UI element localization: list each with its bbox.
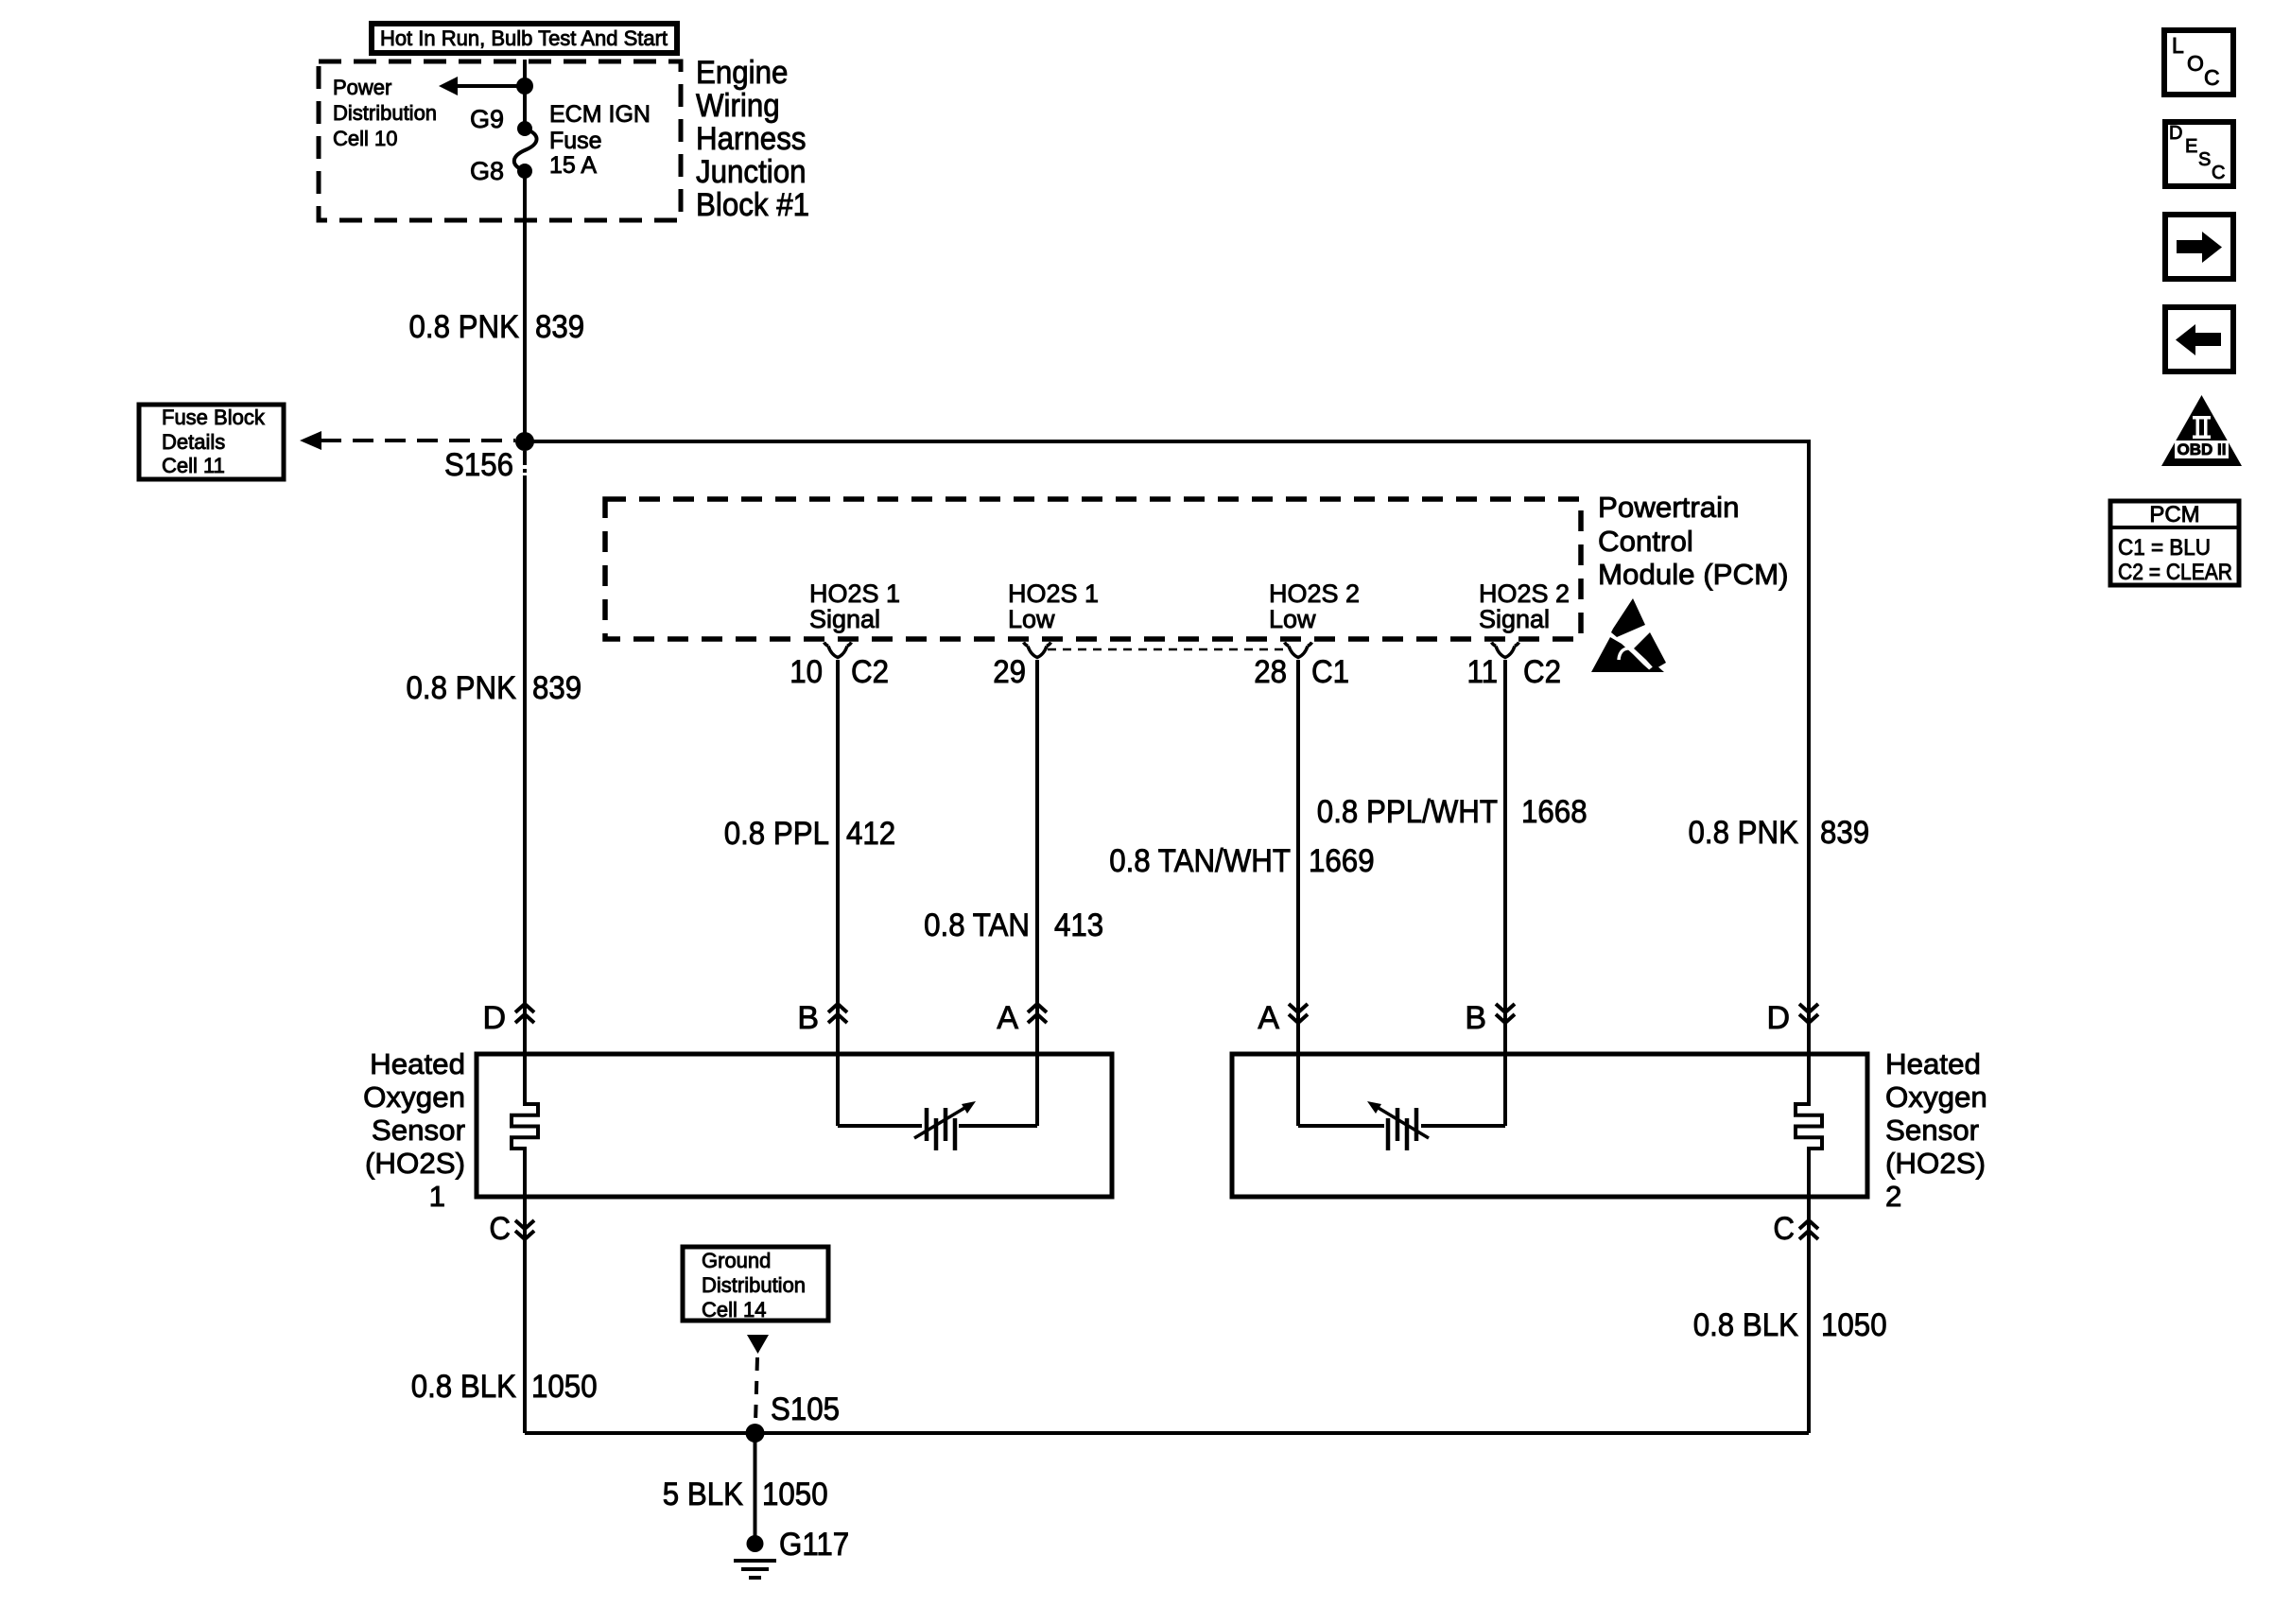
svg-text:Cell 14: Cell 14 [702,1298,766,1322]
pin G8 [470,157,532,185]
svg-text:Fuse Block: Fuse Block [162,406,266,429]
wire: trunk S156 down to HO2S1 pin D [523,451,527,465]
pin 10 C2 [789,654,889,690]
wire: junction dot to fuse [523,86,527,129]
wire: dashed reference drop to S105 [755,1357,757,1423]
label: HO2S 2 Signal [1479,579,1570,633]
connector: PCM pin 28 female terminal [1285,643,1312,658]
connector terminal D [1766,1000,1818,1036]
component box: Heated Oxygen Sensor (HO2S) 2 [1232,1054,1867,1197]
svg-text:1050: 1050 [1821,1307,1887,1343]
svg-text:C: C [2204,65,2220,90]
svg-text:412: 412 [846,816,895,852]
label: 5 BLK 1050 [663,1477,828,1512]
label: HO2S 2 Low [1269,579,1360,633]
wire: bottom ground bus [525,1431,1809,1435]
svg-text:B: B [797,1000,819,1036]
label: Engine Wiring Harness Junction Block #1 [696,55,809,223]
svg-text:Power: Power [333,76,391,99]
svg-text:Engine: Engine [696,55,788,91]
module: Powertrain Control Module dashed box [605,499,1581,639]
pin G9 [470,105,532,136]
svg-text:Heated: Heated [1885,1047,1981,1080]
wire: 0.8 PPL/WHT 1668 (pin11 to HO2S2 B) [1503,660,1507,1126]
svg-text:G9: G9 [470,105,504,133]
wire: 0.8 BLK 1050 HO2S1 C down [523,1197,527,1433]
connector: PCM pin 11 female terminal [1492,643,1519,658]
svg-text:D: D [2169,123,2182,144]
label: 0.8 BLK 1050 (left) [411,1369,598,1405]
svg-text:0.8 PPL: 0.8 PPL [724,816,829,852]
svg-text:11: 11 [1467,654,1499,690]
wire: 0.8 TAN/WHT 1669 (pin28 to HO2S2 A) [1296,660,1300,1126]
svg-text:Heated: Heated [370,1047,465,1080]
label: 0.8 PPL/WHT 1668 [1317,794,1588,830]
svg-text:5 BLK: 5 BLK [663,1477,743,1512]
svg-text:(HO2S): (HO2S) [1885,1147,1986,1180]
label: 0.8 PNK 839 (upper) [409,309,585,345]
svg-text:A: A [1258,1000,1279,1036]
wire: 5 BLK 1050 to ground [754,1433,757,1539]
node: branch junction dot [516,78,533,95]
svg-text:S: S [2198,149,2211,170]
reference box: Ground Distribution Cell 14 [683,1247,828,1322]
label: HO2S 1 Low [1008,579,1099,633]
svg-text:Cell 11: Cell 11 [162,454,225,477]
svg-text:1050: 1050 [531,1369,598,1405]
power rail label: Hot In Run, Bulb Test And Start [372,24,677,53]
svg-text:HO2S 2: HO2S 2 [1269,579,1360,608]
svg-text:D: D [482,1000,506,1036]
svg-text:ECM IGN: ECM IGN [549,101,651,128]
svg-text:HO2S 1: HO2S 1 [809,579,900,608]
wire: 0.8 TAN 413 (pin29 to HO2S1 A) [1035,660,1039,1126]
svg-text:Wiring: Wiring [696,88,780,124]
sensor cell: HO2S1 variable voltage source [838,1101,1037,1150]
svg-text:Oxygen: Oxygen [363,1080,465,1114]
svg-text:HO2S 1: HO2S 1 [1008,579,1099,608]
label: Heated Oxygen Sensor (HO2S) 1 [363,1047,465,1213]
svg-text:0.8 PPL/WHT: 0.8 PPL/WHT [1317,794,1498,830]
connector terminal A [997,1000,1047,1036]
svg-text:PCM: PCM [2149,502,2199,527]
svg-text:S156: S156 [444,447,513,483]
label: 0.8 TAN 413 [924,907,1103,943]
svg-text:0.8 TAN/WHT: 0.8 TAN/WHT [1109,843,1291,879]
label: HO2S 1 Signal [809,579,900,633]
wire: HO2S2 heater feed [1807,1052,1811,1106]
wire: dashed reference arrow to Fuse Block Details [300,431,515,450]
component box: Heated Oxygen Sensor (HO2S) 1 [477,1054,1112,1197]
wire: 0.8 BLK 1050 HO2S2 C down [1807,1197,1811,1433]
svg-text:Junction: Junction [696,154,807,190]
svg-text:839: 839 [1820,815,1869,851]
svg-text:O: O [2187,51,2204,76]
svg-text:Ground: Ground [702,1249,771,1272]
label: 0.8 PNK 839 (lower left) [407,670,582,706]
svg-text:0.8 BLK: 0.8 BLK [411,1369,517,1405]
svg-text:Low: Low [1269,605,1316,633]
icon: OBD II triangle [2161,395,2242,466]
svg-text:C1: C1 [1311,654,1349,690]
wire: supply into junction block [523,60,527,86]
svg-text:0.8 BLK: 0.8 BLK [1693,1307,1799,1343]
pin 28 C1 [1254,654,1349,690]
svg-text:C2 = CLEAR: C2 = CLEAR [2118,560,2232,585]
svg-text:C1 = BLU: C1 = BLU [2118,535,2211,561]
icon: LOC box [2164,30,2233,95]
svg-text:413: 413 [1054,907,1103,943]
svg-text:C2: C2 [1523,654,1561,690]
svg-text:Sensor: Sensor [372,1114,465,1147]
node S105: splice [746,1391,841,1443]
svg-text:C: C [2212,163,2225,183]
connector terminal B [1465,1000,1515,1036]
symbol: reference pointer triangle [747,1335,769,1354]
svg-text:Hot In Run, Bulb Test And Star: Hot In Run, Bulb Test And Start [380,26,668,50]
connector: PCM pin 10 female terminal [824,643,852,658]
svg-text:Details: Details [162,430,225,454]
svg-text:Signal: Signal [1479,605,1550,633]
svg-text:Sensor: Sensor [1885,1114,1979,1147]
svg-text:Distribution: Distribution [702,1273,806,1297]
label: 0.8 PPL 412 [724,816,896,852]
svg-text:Block #1: Block #1 [696,187,809,223]
svg-text:G8: G8 [470,157,504,185]
svg-text:0.8 TAN: 0.8 TAN [924,907,1030,943]
svg-text:Harness: Harness [696,121,807,157]
svg-text:Fuse: Fuse [549,128,602,154]
wire: 0.8 PPL 412 (pin10 to HO2S1 B) [836,660,840,1126]
svg-text:10: 10 [789,654,823,690]
svg-text:OBD II: OBD II [2178,441,2227,458]
svg-text:D: D [1766,1000,1790,1036]
label: Powertrain Control Module (PCM) [1598,491,1789,591]
pin 11 C2 [1467,654,1562,690]
symbol: ESD-sensitive device warning [1591,598,1666,672]
svg-text:1668: 1668 [1521,794,1588,830]
ground G117 [734,1527,849,1578]
wire: 0.8 PNK 839 from G8 to S156 [523,171,527,441]
svg-text:L: L [2172,33,2184,58]
svg-text:Control: Control [1598,525,1693,558]
legend box: PCM connectors [2110,501,2239,585]
svg-text:A: A [997,1000,1018,1036]
svg-text:15 A: 15 A [549,152,597,179]
svg-text:Cell 10: Cell 10 [333,127,397,150]
svg-text:839: 839 [532,670,581,706]
connector terminal C (HO2S1) [489,1211,534,1247]
label: Heated Oxygen Sensor (HO2S) 2 [1885,1047,1987,1213]
svg-text:B: B [1465,1000,1486,1036]
label: 0.8 BLK 1050 (right) [1693,1307,1887,1343]
wire: HO2S1 heater feed [523,1052,527,1106]
svg-text:G117: G117 [779,1527,849,1563]
svg-text:28: 28 [1254,654,1287,690]
svg-text:S105: S105 [771,1391,840,1427]
svg-text:1669: 1669 [1309,843,1375,879]
label: 0.8 TAN/WHT 1669 [1109,843,1374,879]
connector terminal D [482,1000,534,1036]
svg-text:1050: 1050 [762,1477,828,1512]
icon: back arrow box [2165,307,2233,371]
connector terminal B [797,1000,847,1036]
svg-text:(HO2S): (HO2S) [365,1147,465,1180]
label: 0.8 PNK 839 (right) [1689,815,1870,851]
heater element HO2S1 [512,1104,538,1149]
svg-text:Module (PCM): Module (PCM) [1598,558,1789,591]
svg-text:Oxygen: Oxygen [1885,1080,1987,1114]
junction block: Power Distribution dashed box [319,61,681,220]
sensor cell: HO2S2 variable voltage source [1298,1101,1505,1150]
connector terminal A [1258,1000,1308,1036]
heater element HO2S2 [1796,1104,1822,1149]
fuse: ECM IGN Fuse 15 A [514,101,651,179]
connector terminal C (HO2S2) [1773,1211,1818,1247]
svg-text:0.8 PNK: 0.8 PNK [1689,815,1799,851]
icon: DESC box [2165,122,2233,186]
svg-text:C: C [1773,1211,1795,1247]
node S156: splice [444,432,534,483]
svg-text:0.8 PNK: 0.8 PNK [407,670,517,706]
wire: branch arrow to Power Distribution [439,77,525,95]
svg-text:Powertrain: Powertrain [1598,491,1740,524]
svg-text:0.8 PNK: 0.8 PNK [409,309,520,345]
svg-text:E: E [2185,136,2197,157]
svg-text:Signal: Signal [809,605,880,633]
svg-text:C: C [489,1211,511,1247]
svg-text:29: 29 [993,654,1026,690]
connector: PCM pin 29 female terminal [1024,643,1051,658]
svg-text:839: 839 [535,309,584,345]
icon: forward arrow box [2165,215,2233,279]
svg-text:HO2S 2: HO2S 2 [1479,579,1570,608]
wire: dashed internal link pin29 to pin28 [1048,648,1289,651]
wire: S156 to right feed of HO2S2 [529,440,1809,443]
svg-text:1: 1 [429,1180,445,1213]
label: Power Distribution Cell 10 [333,76,437,150]
svg-text:2: 2 [1885,1180,1901,1213]
svg-text:Low: Low [1008,605,1055,633]
reference box: Fuse Block Details Cell 11 [139,405,284,479]
pin 29 [993,654,1026,690]
svg-text:Distribution: Distribution [333,101,437,125]
svg-text:C2: C2 [851,654,889,690]
